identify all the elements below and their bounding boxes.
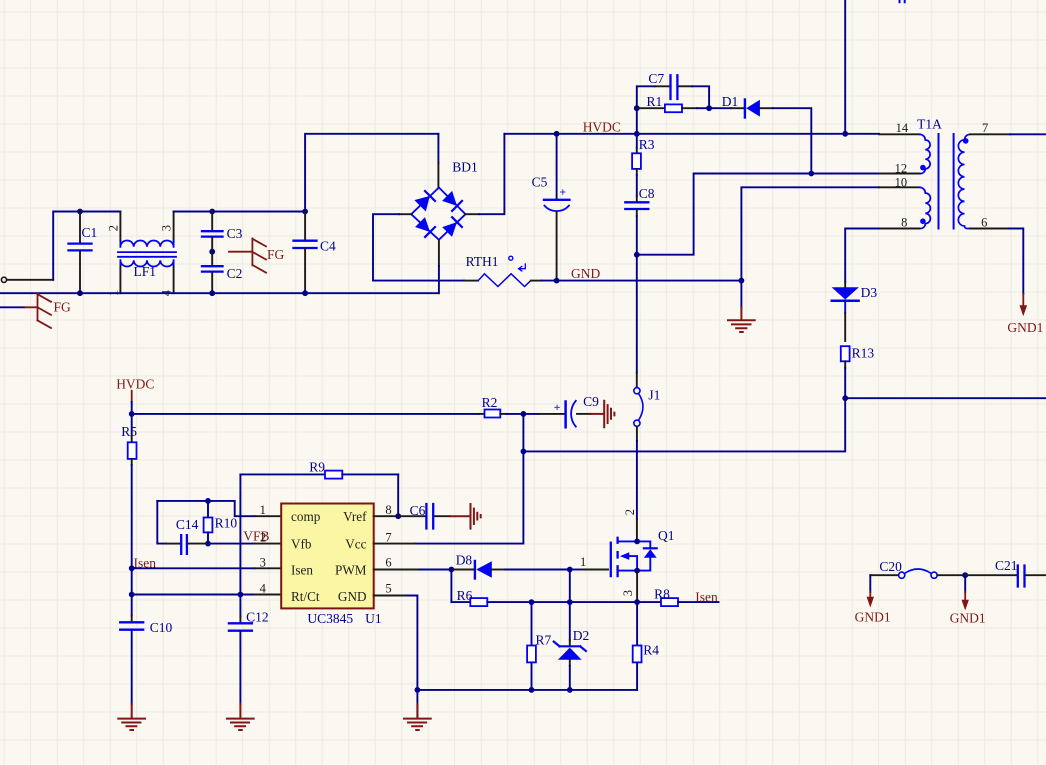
svg-text:LF1: LF1 <box>134 264 157 279</box>
wire bottom ground rail <box>417 689 637 691</box>
resistor R4 <box>633 602 660 690</box>
node C1 bottom <box>77 290 83 296</box>
node R1/C7 right <box>706 105 712 111</box>
capacitor C7 <box>648 71 709 108</box>
svg-text:T1A: T1A <box>917 117 942 132</box>
node Vref <box>395 513 401 519</box>
svg-text:Rt/Ct: Rt/Ct <box>291 589 320 604</box>
wire top rail C1 to LF1 pin2 <box>80 211 120 213</box>
transformer T1A <box>879 117 1010 230</box>
diode D8 <box>451 553 505 579</box>
capacitor C1 <box>69 212 98 294</box>
svg-text:Vfb: Vfb <box>291 537 312 552</box>
svg-text:FG: FG <box>267 247 285 262</box>
svg-text:R6: R6 <box>457 588 473 603</box>
wire D8/R6 left riser <box>450 570 452 603</box>
svg-text:Vcc: Vcc <box>345 537 366 552</box>
pin 6 <box>970 228 1009 230</box>
svg-text:4: 4 <box>260 582 267 596</box>
capacitor C9 (electrolytic) <box>523 394 599 428</box>
svg-text:HVDC: HVDC <box>116 377 154 392</box>
svg-text:R13: R13 <box>852 346 875 361</box>
svg-text:2: 2 <box>107 225 121 231</box>
diode BD1 top-left <box>414 196 430 212</box>
wire pin7 to right edge <box>1010 133 1046 135</box>
wire U1 pin8 stub <box>374 515 399 517</box>
wire Isen row to U1 pin3 <box>132 567 255 569</box>
svg-text:10: 10 <box>895 175 908 189</box>
wire J1 to Q1 drain <box>636 441 638 519</box>
node GND rail right <box>739 278 745 284</box>
capacitor C4 <box>294 212 337 294</box>
node pin12 wire <box>808 171 814 177</box>
power port GND (rotated earth at C9) <box>591 401 614 428</box>
svg-text:J1: J1 <box>648 387 660 402</box>
resistor R7 <box>527 602 551 690</box>
resistor R5 <box>121 414 137 568</box>
wire D2 column upper <box>569 570 571 603</box>
svg-text:R2: R2 <box>482 395 498 410</box>
diode D3 <box>832 282 878 341</box>
node Rt/Ct row left <box>129 592 135 598</box>
wire riser GND rail to T1A pin10 <box>741 187 879 280</box>
connector P1 (AC line input terminal) <box>1 277 6 282</box>
node C4 bottom <box>302 290 308 296</box>
svg-text:Q1: Q1 <box>658 528 675 543</box>
power port FG (mid chassis ground at C2/C3) <box>229 238 285 272</box>
capacitor C14 <box>157 501 208 554</box>
wire stair pin12 row to R3/C8 bottom <box>637 174 812 255</box>
substrate arrow <box>628 556 637 571</box>
svg-text:C21: C21 <box>995 558 1018 573</box>
pin 12 <box>880 173 920 175</box>
svg-text:Isen: Isen <box>695 590 718 605</box>
wire riser up to C1 top rail <box>53 212 80 280</box>
source stub <box>618 570 638 572</box>
node R2/C9/Vcc riser <box>521 411 527 417</box>
node R6/R7 <box>529 599 535 605</box>
ground (earth) below C10 <box>118 704 145 730</box>
svg-text:GND1: GND1 <box>1007 320 1043 335</box>
svg-text:D8: D8 <box>456 553 473 568</box>
drain stub <box>618 540 638 542</box>
capacitor C10 <box>120 595 172 705</box>
svg-text:14: 14 <box>896 121 909 135</box>
node HVDC bottom <box>129 411 135 417</box>
node R1 left <box>634 105 640 111</box>
resistor R6 <box>451 588 531 606</box>
node HVDC / R1 C7 column <box>634 131 640 137</box>
resistor R3 <box>632 134 655 196</box>
svg-text:8: 8 <box>385 503 391 517</box>
svg-text:12: 12 <box>895 161 908 175</box>
wire R1/C7 left riser <box>637 86 655 134</box>
node C20/C21 junction <box>962 572 968 578</box>
cropped component stub at top edge <box>900 0 905 2</box>
node HVDC C5 top <box>554 131 560 137</box>
svg-text:1: 1 <box>580 555 586 569</box>
svg-text:GND1: GND1 <box>855 610 891 625</box>
capacitor C8 <box>625 186 655 255</box>
bridge rectifier BD1 <box>399 134 479 293</box>
svg-text:C12: C12 <box>246 610 269 625</box>
wire pin12 row <box>811 173 879 175</box>
svg-text:C4: C4 <box>320 239 336 254</box>
node R10 top <box>205 498 211 504</box>
IC U1 UC3845 body <box>260 503 392 626</box>
wire R13 node to right edge <box>845 397 1046 399</box>
svg-text:HVDC: HVDC <box>583 119 621 134</box>
wire U1 pin1 stub <box>255 515 282 517</box>
wire R5 column to Rt/Ct row <box>131 568 133 594</box>
body diode <box>637 541 650 570</box>
svg-text:R10: R10 <box>215 516 238 531</box>
core lines <box>939 134 954 229</box>
wire gate node to Q1 gate <box>570 569 583 571</box>
wire D8 to gate node <box>505 569 570 571</box>
node gate row <box>567 567 573 573</box>
wire RTH1 to GND node <box>542 280 557 282</box>
node R7 bottom <box>529 687 535 693</box>
svg-text:Isen: Isen <box>291 563 313 578</box>
wire U1 pin7 stub <box>374 543 415 545</box>
wire R1 to D1 <box>709 107 731 109</box>
svg-text:D2: D2 <box>573 628 590 643</box>
wire U1 pin6 stub to D8 node <box>374 569 420 571</box>
wire HVDC to R2 <box>132 413 479 415</box>
svg-text:R8: R8 <box>654 586 670 601</box>
node source/R8/R4 <box>634 599 640 605</box>
node C2 bottom <box>209 290 215 296</box>
svg-text:FG: FG <box>54 300 72 315</box>
wire pin6 to GND1 <box>1009 229 1024 295</box>
primary winding 10-8 <box>920 187 931 228</box>
thermistor RTH1 <box>464 254 542 287</box>
wire R9 riser down to Rt/Ct node <box>239 474 241 594</box>
power port FG (left chassis ground) <box>25 294 72 328</box>
capacitor C2 <box>202 252 242 294</box>
wire bottom rail (neutral) <box>0 292 438 294</box>
capacitor C3 <box>202 212 243 252</box>
svg-text:comp: comp <box>291 509 321 524</box>
svg-text:3: 3 <box>260 555 266 569</box>
svg-text:5: 5 <box>385 582 391 596</box>
svg-text:6: 6 <box>385 555 391 569</box>
resistor R13 <box>841 346 875 399</box>
wire terminal to riser <box>7 279 53 281</box>
inductor LF1 (common mode choke) <box>107 212 177 297</box>
capacitor C5 (electrolytic) <box>532 134 570 281</box>
resistor R8 <box>637 586 718 606</box>
svg-text:C3: C3 <box>227 226 243 241</box>
svg-text:GND1: GND1 <box>950 611 986 626</box>
node Q1 source <box>634 568 640 574</box>
svg-text:R3: R3 <box>639 137 655 152</box>
node C1 top <box>77 209 83 215</box>
wire R13 node down and left to Vcc riser <box>523 398 845 451</box>
svg-text:C20: C20 <box>879 559 902 574</box>
svg-text:C9: C9 <box>583 394 599 409</box>
wire R9 right riser to Vref node <box>397 474 399 516</box>
svg-text:D3: D3 <box>861 285 878 300</box>
node GND C5 bottom <box>554 278 560 284</box>
secondary winding 7-6 <box>958 134 970 228</box>
pin 7 <box>970 133 1010 135</box>
polarity dot pin12 <box>920 165 926 171</box>
gate bar <box>610 543 612 576</box>
wire FG input stub <box>0 306 25 308</box>
svg-text:RTH1: RTH1 <box>466 254 499 269</box>
pin 10 <box>879 186 920 188</box>
svg-text:PWM: PWM <box>335 563 367 578</box>
svg-text:C8: C8 <box>639 186 655 201</box>
svg-text:U1: U1 <box>365 611 382 626</box>
node Q1 drain <box>634 539 640 545</box>
svg-text:R7: R7 <box>536 632 552 647</box>
diode BD1 bottom-left <box>415 217 430 232</box>
ground (earth) below C12 <box>227 704 254 730</box>
resistor R2 <box>479 395 523 418</box>
wire Q1 source down <box>636 571 638 603</box>
wire R6 row to D2 column <box>532 601 570 603</box>
zener diode D2 <box>554 602 590 690</box>
svg-text:3: 3 <box>621 590 635 596</box>
diode D1 <box>722 94 760 117</box>
svg-text:7: 7 <box>385 530 391 544</box>
svg-text:GND: GND <box>571 266 600 281</box>
wire Vfb row to U1 pin2 <box>208 543 255 545</box>
resistor R9 <box>240 460 398 479</box>
wire top feed vertical <box>844 0 846 134</box>
svg-text:C10: C10 <box>150 620 173 635</box>
ground (earth) at GND rail <box>728 281 755 332</box>
svg-text:3: 3 <box>160 225 174 231</box>
svg-text:C14: C14 <box>176 517 199 532</box>
wire GND rail <box>557 280 742 282</box>
wire D1 anode down to pin12 row <box>760 107 773 109</box>
svg-text:6: 6 <box>981 215 987 229</box>
power port GND1 (right) <box>950 575 986 625</box>
svg-text:D1: D1 <box>722 94 739 109</box>
capacitor C12 <box>229 595 269 705</box>
svg-text:C6: C6 <box>410 503 426 518</box>
svg-text:8: 8 <box>901 215 907 229</box>
wire C8 junction down across GND rail to J1 <box>636 255 638 373</box>
polarity dot pin8 <box>920 218 926 224</box>
wire C4 column up to HVDC rail corner <box>305 134 438 212</box>
power port GND1 (secondary return) <box>1007 294 1043 335</box>
svg-text:GND: GND <box>338 589 367 604</box>
node C3/C2 junction <box>209 249 215 255</box>
power port GND (rotated earth at C6) <box>450 504 481 529</box>
node PWM / D8 <box>449 567 455 573</box>
wire BD1 plus up to HVDC rail <box>479 134 504 214</box>
transistor Q1 (N-MOSFET) <box>611 509 675 576</box>
wire U1 pin5 stub and drop to ground rail <box>374 595 408 597</box>
wire Rt/Ct row to U1 pin4 <box>132 594 255 596</box>
node R10 bottom <box>205 541 211 547</box>
svg-text:Vref: Vref <box>343 509 367 524</box>
node R9/C12/RtCt <box>238 592 244 598</box>
node C8 bottom / stair junction <box>634 252 640 258</box>
svg-text:C5: C5 <box>532 175 548 190</box>
capacitor C21 <box>965 558 1046 586</box>
ground (earth) below pin5 rail <box>404 690 431 730</box>
pin 14 <box>879 133 920 135</box>
svg-text:C7: C7 <box>648 71 664 86</box>
polarity dot pin7 <box>963 138 969 144</box>
channel segments <box>616 538 618 576</box>
node C4 top <box>302 209 308 215</box>
node Isen row <box>129 565 135 571</box>
pin 8 <box>879 228 920 230</box>
wire R6 row to Q1 source column <box>570 601 637 603</box>
svg-text:R9: R9 <box>309 460 325 475</box>
node ground rail left <box>415 687 421 693</box>
svg-text:R1: R1 <box>647 94 663 109</box>
node D2 bottom <box>567 687 573 693</box>
capacitor C6 <box>398 503 450 529</box>
diode BD1 top-right <box>442 191 457 206</box>
jumper J1 <box>634 373 661 442</box>
svg-text:C1: C1 <box>82 225 98 240</box>
svg-text:BD1: BD1 <box>452 160 478 175</box>
node R6 row / D2 column <box>567 599 573 605</box>
svg-text:2: 2 <box>260 530 266 544</box>
node R13 bottom <box>842 395 848 401</box>
jumper C20 <box>870 559 965 578</box>
primary winding 14-12 <box>920 134 931 173</box>
node C3 top <box>209 209 215 215</box>
wire HVDC rail mid segment <box>504 133 879 135</box>
wire Vcc riser <box>415 414 523 544</box>
svg-text:UC3845: UC3845 <box>307 611 353 626</box>
svg-text:C2: C2 <box>227 266 243 281</box>
diode BD1 bottom-right <box>442 222 457 237</box>
svg-text:7: 7 <box>982 121 988 135</box>
node HVDC rail / top feed <box>842 131 848 137</box>
wire comp top rail <box>157 501 254 516</box>
resistor R1 <box>637 94 709 112</box>
svg-text:1: 1 <box>260 503 266 517</box>
resistor R10 <box>204 501 238 544</box>
power port GND1 (left of C20) <box>855 575 891 624</box>
node Vcc riser / R13 wire <box>521 449 527 455</box>
wire top rail LF1 pin3 to C4 <box>174 211 306 213</box>
svg-text:2: 2 <box>623 509 637 515</box>
svg-text:R4: R4 <box>643 643 659 658</box>
svg-text:R5: R5 <box>121 424 137 439</box>
wire BD1 minus loop to RTH1 <box>373 214 464 280</box>
wire T1A pin8 corner down <box>845 228 879 230</box>
